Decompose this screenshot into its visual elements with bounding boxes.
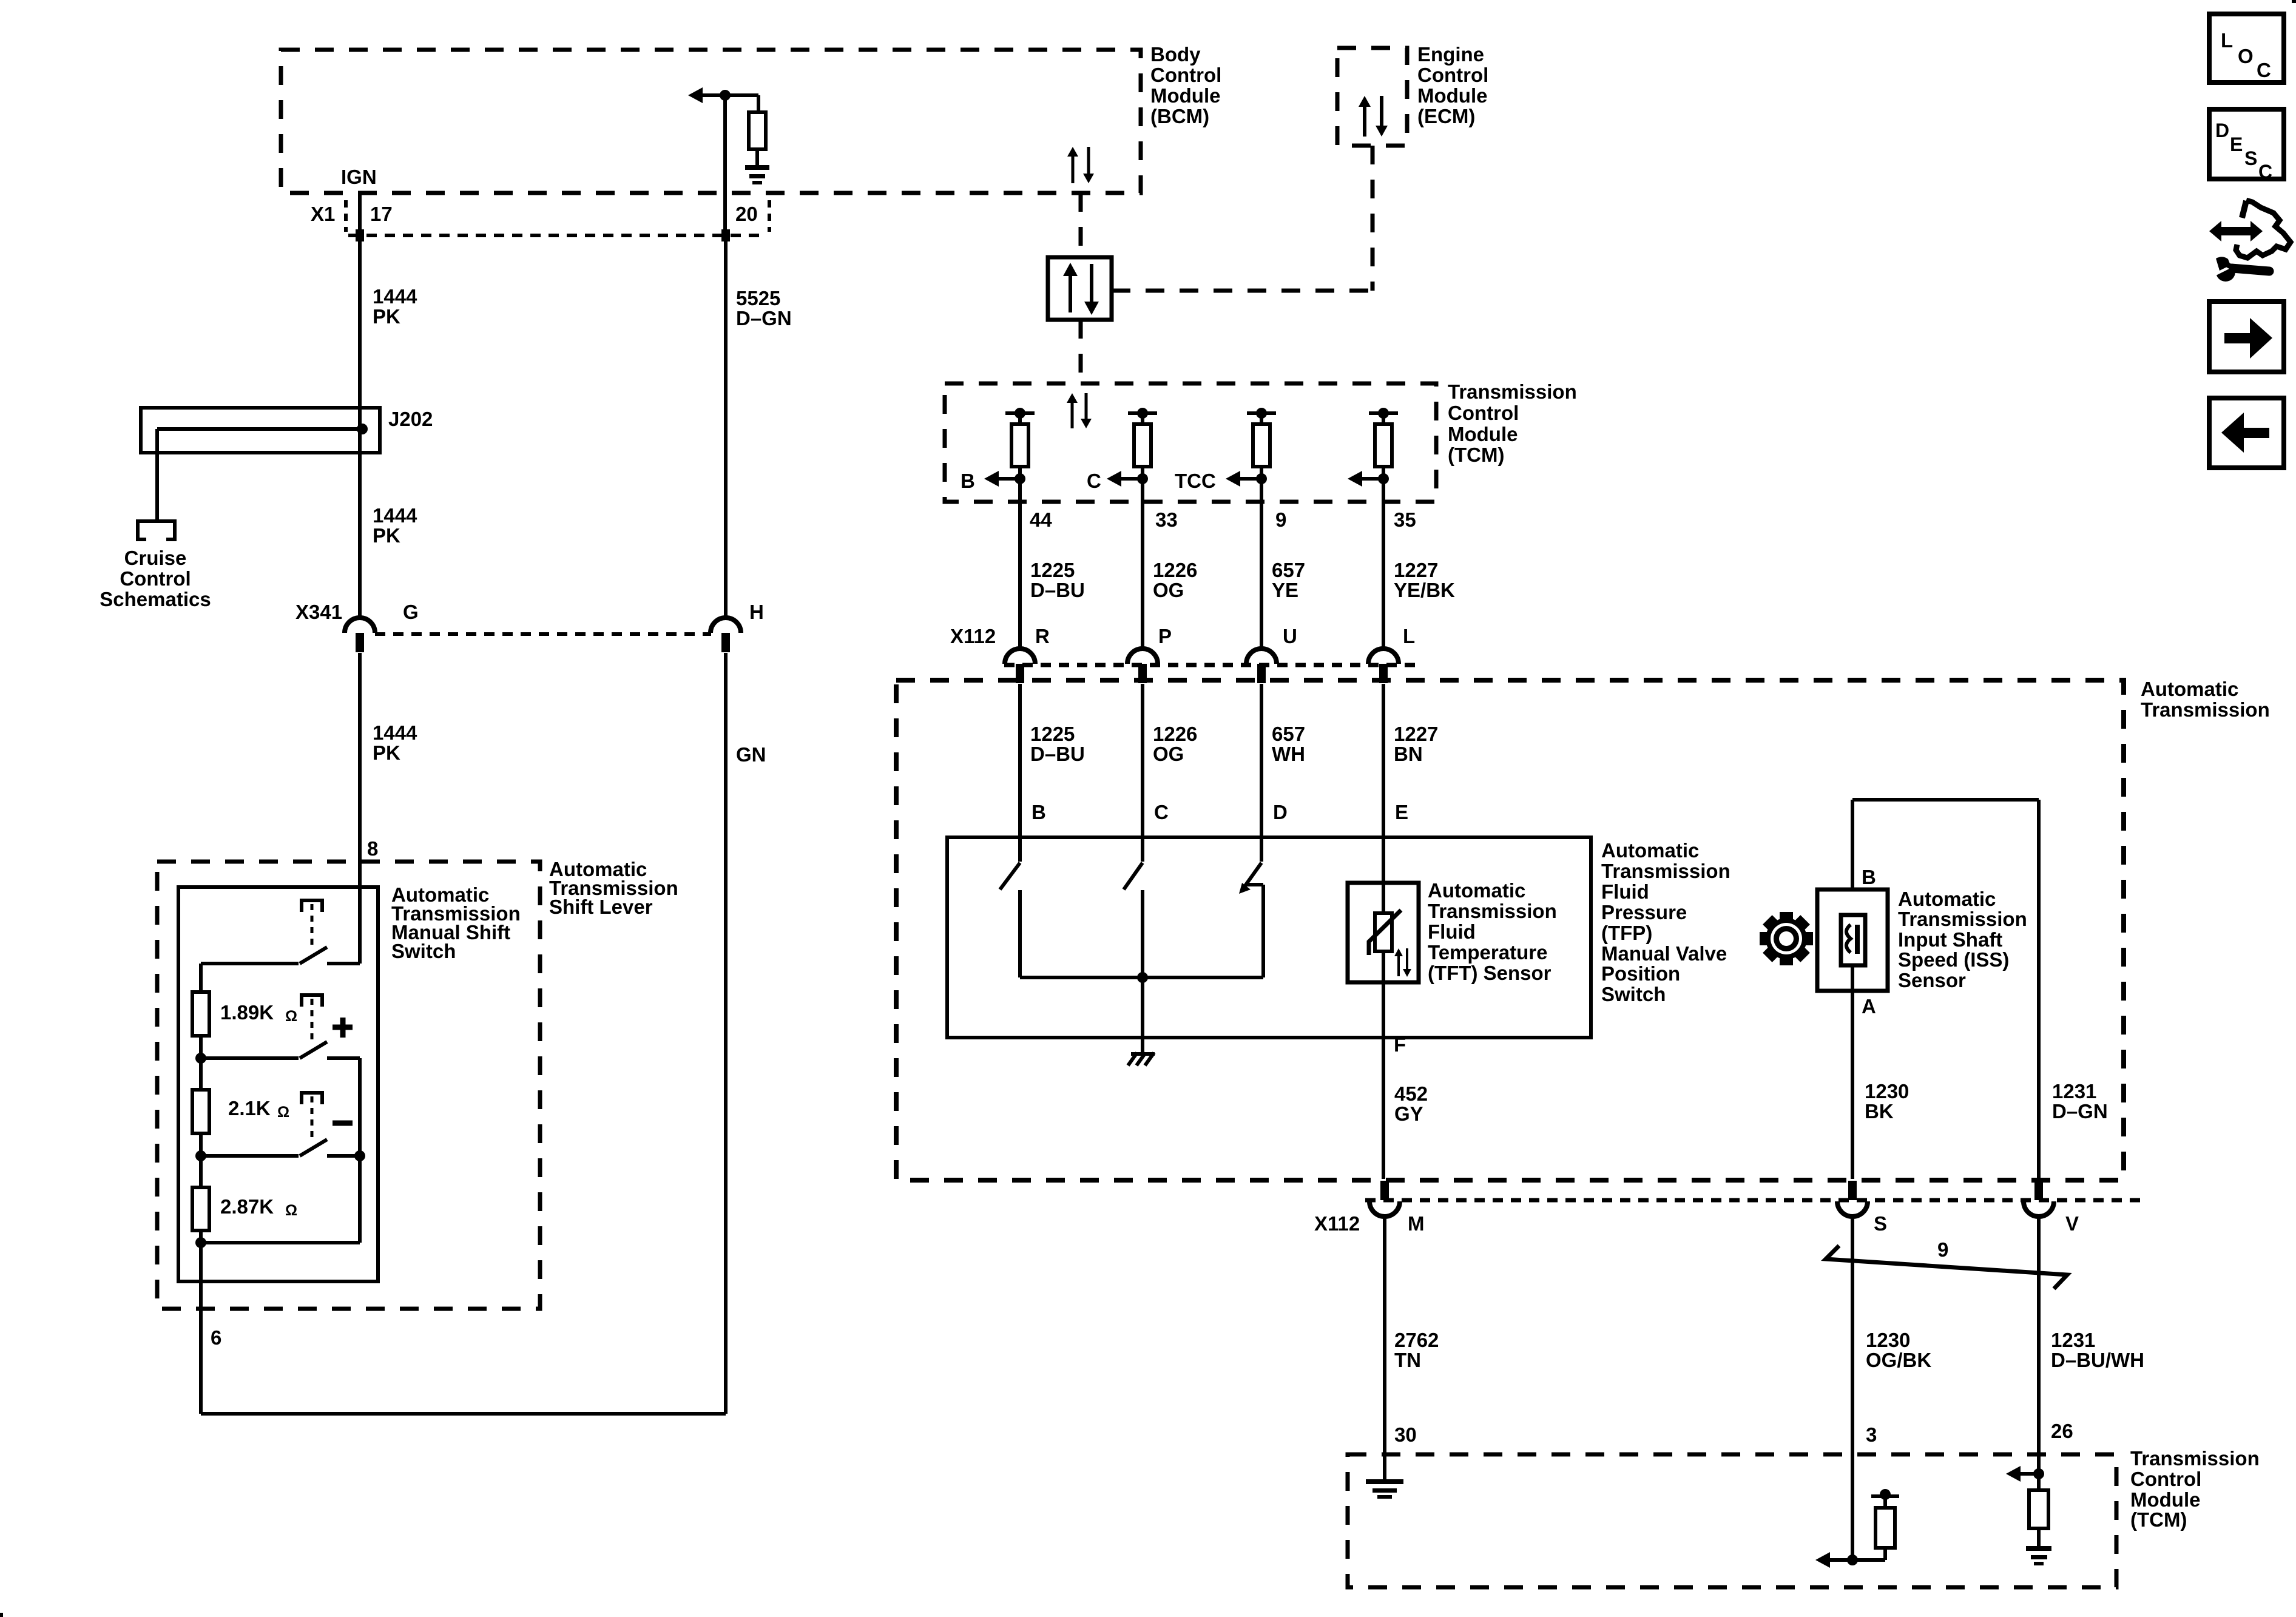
wire 1225 D&#8211;BU from X112 into transmission bbox=[1018, 684, 1022, 862]
wire label 5525 D-GN bbox=[736, 287, 792, 329]
svg-text:B: B bbox=[961, 470, 975, 492]
svg-text:Control: Control bbox=[1150, 64, 1221, 86]
wire label 1231 D-GN bbox=[2052, 1080, 2108, 1122]
junction dot at S3 right contact bbox=[354, 1150, 365, 1161]
pin 44 label bbox=[1030, 508, 1052, 531]
label J202 bbox=[388, 408, 433, 430]
label 9 (twisted pair) bbox=[1937, 1238, 1948, 1261]
svg-text:(TCM): (TCM) bbox=[2130, 1508, 2187, 1531]
wire 657 WH from X112 into transmission bbox=[1260, 684, 1263, 862]
dashed serial data wire junction to TCM bbox=[1079, 320, 1083, 383]
label B bbox=[961, 470, 975, 492]
label: Automatic Transmission Input Shaft Speed (ISS) Sensor bbox=[1898, 888, 2027, 991]
svg-text:BK: BK bbox=[1865, 1100, 1894, 1122]
chassis ground (TFP switch) bbox=[1128, 1053, 1155, 1065]
wire label 1444 PK (middle) bbox=[373, 504, 417, 547]
svg-text:X1: X1 bbox=[311, 203, 335, 225]
svg-text:20: 20 bbox=[735, 203, 758, 225]
svg-text:IGN: IGN bbox=[341, 166, 377, 188]
svg-text:C: C bbox=[2257, 59, 2271, 81]
BCM internal: arrow to further circuits, junction, pull-up resistor to ground bbox=[688, 87, 766, 165]
wire: 1231 D-BU/WH from X112 V to TCM bbox=[2037, 1215, 2041, 1474]
svg-text:D–BU/WH: D–BU/WH bbox=[2051, 1349, 2144, 1371]
svg-text:Control: Control bbox=[1417, 64, 1488, 86]
svg-text:Temperature: Temperature bbox=[1428, 941, 1547, 964]
svg-text:B: B bbox=[1032, 801, 1046, 823]
svg-text:C: C bbox=[1087, 470, 1101, 492]
thermistor (TFT) element bbox=[1369, 910, 1401, 955]
wire label 2762 TN bbox=[1394, 1329, 1439, 1371]
label - (minus) bbox=[333, 1121, 353, 1126]
component box: TFT sensor bbox=[1348, 883, 1419, 982]
wire label 1231 D-BU/WH bbox=[2051, 1329, 2144, 1371]
svg-text:YE: YE bbox=[1272, 579, 1298, 601]
wire label 1226 OG bbox=[1153, 559, 1197, 601]
TFT internal up/down arrows bbox=[1394, 948, 1411, 977]
svg-text:1226: 1226 bbox=[1153, 559, 1197, 581]
label: Body Control Module (BCM) bbox=[1150, 43, 1221, 127]
ground (TCM pin 26 resistor) bbox=[2026, 1546, 2051, 1565]
svg-text:YE/BK: YE/BK bbox=[1394, 579, 1455, 601]
svg-text:Transmission: Transmission bbox=[1448, 380, 1577, 403]
ground (BCM internal resistor) bbox=[745, 165, 769, 184]
wire 1227 BN from X112 into transmission bbox=[1382, 684, 1385, 913]
connector X1 row (dotted line with dividers) bbox=[346, 200, 769, 235]
svg-text:D–BU: D–BU bbox=[1030, 743, 1085, 765]
label P bbox=[1158, 625, 1172, 647]
svg-text:Sensor: Sensor bbox=[1898, 969, 1966, 991]
svg-text:B: B bbox=[1862, 866, 1876, 888]
wire label 657 YE bbox=[1272, 559, 1305, 601]
label: Engine Control Module (ECM) bbox=[1417, 43, 1488, 127]
pin A label bbox=[1862, 995, 1876, 1018]
svg-text:452: 452 bbox=[1394, 1082, 1428, 1105]
svg-text:Pressure: Pressure bbox=[1601, 901, 1687, 923]
wire: 1230 OG/BK from X112 S to TCM bbox=[1851, 1215, 1854, 1560]
wire 1225 D&#8211;BU from TCM to X112 bbox=[1018, 502, 1022, 650]
wire: bottom bus of shift switch bbox=[201, 1241, 360, 1244]
svg-text:GY: GY bbox=[1394, 1102, 1423, 1125]
svg-text:33: 33 bbox=[1155, 508, 1178, 531]
pin 9 label bbox=[1275, 508, 1286, 531]
svg-text:X112: X112 bbox=[950, 625, 996, 647]
svg-text:1444: 1444 bbox=[373, 285, 417, 308]
switch S1 (tap-up/tap-down common) with momentary actuator bbox=[201, 899, 360, 964]
splice J202 box bbox=[141, 408, 380, 453]
label 2.1K ohm bbox=[228, 1097, 289, 1121]
label X112 (upper) bbox=[950, 625, 996, 647]
svg-text:C: C bbox=[1154, 801, 1169, 823]
resistor 1.89K ohm bbox=[192, 964, 209, 1036]
svg-text:Cruise: Cruise bbox=[124, 547, 187, 569]
wire: shift switch common down to pin 6 bbox=[199, 1230, 203, 1414]
svg-text:Fluid: Fluid bbox=[1428, 920, 1476, 943]
page mark top-right bbox=[2292, 0, 2296, 3]
wire: 2762 TN from X112 M to TCM ground bbox=[1383, 1215, 1386, 1479]
ECM internal up/down arrows bbox=[1359, 96, 1388, 137]
svg-text:26: 26 bbox=[2051, 1420, 2073, 1442]
label C bbox=[1087, 470, 1101, 492]
label X341 bbox=[295, 601, 342, 623]
label 2.87K ohm bbox=[220, 1195, 297, 1219]
svg-text:657: 657 bbox=[1272, 559, 1305, 581]
pin B label bbox=[1032, 801, 1046, 823]
connector H (in-line) bbox=[711, 618, 741, 652]
svg-text:Position: Position bbox=[1601, 962, 1680, 985]
wire: right-side bus of shift switch bbox=[358, 1058, 362, 1243]
svg-text:1231: 1231 bbox=[2052, 1080, 2096, 1102]
svg-text:Ω: Ω bbox=[285, 1008, 297, 1025]
pin 17 label bbox=[370, 203, 393, 225]
svg-text:D: D bbox=[1273, 801, 1288, 823]
label X112 (lower) bbox=[1314, 1212, 1360, 1235]
svg-text:OG/BK: OG/BK bbox=[1866, 1349, 1931, 1371]
connector X112 pin U bbox=[1246, 649, 1277, 683]
module box: Engine Control Module (ECM), dashed bbox=[1337, 48, 1407, 146]
svg-text:D–GN: D–GN bbox=[736, 307, 792, 329]
svg-text:(TFP): (TFP) bbox=[1601, 922, 1652, 944]
svg-text:Control: Control bbox=[1448, 402, 1519, 424]
junction dot (R2/R3) bbox=[195, 1150, 206, 1161]
wire: branch down to cruise control connector bbox=[155, 429, 159, 521]
connector X112 pin V bbox=[2024, 1181, 2054, 1217]
TFP switch contact B (open) bbox=[1000, 863, 1020, 977]
TFP switch common bus bbox=[1020, 976, 1263, 979]
dashed serial data wire ECM drop bbox=[1371, 146, 1375, 291]
svg-text:Automatic: Automatic bbox=[1601, 839, 1699, 862]
svg-text:Module: Module bbox=[2130, 1488, 2200, 1511]
pin 20 terminal tick bbox=[721, 229, 730, 241]
svg-text:1225: 1225 bbox=[1030, 723, 1075, 745]
wire: 1444 PK from J202 to connector X341 G bbox=[358, 429, 362, 620]
pin label IGN on BCM bbox=[341, 166, 377, 188]
label V bbox=[2065, 1212, 2079, 1235]
pin 30 label bbox=[1394, 1423, 1417, 1446]
label R bbox=[1035, 625, 1050, 647]
svg-text:(BCM): (BCM) bbox=[1150, 105, 1209, 127]
label X1 bbox=[311, 203, 335, 225]
pin 26 label bbox=[2051, 1420, 2073, 1442]
label + (plus) bbox=[333, 1018, 353, 1038]
svg-text:Ω: Ω bbox=[277, 1104, 289, 1121]
svg-text:OG: OG bbox=[1153, 743, 1184, 765]
svg-text:Shift Lever: Shift Lever bbox=[549, 896, 653, 918]
connector X112 pin L bbox=[1368, 649, 1399, 683]
svg-text:PK: PK bbox=[373, 524, 400, 547]
svg-text:6: 6 bbox=[211, 1326, 221, 1349]
icon: hand with double arrow and wrench bbox=[2205, 200, 2291, 282]
wire label GN bbox=[736, 743, 766, 766]
connector X341 row dotted line bbox=[375, 632, 711, 636]
svg-text:17: 17 bbox=[370, 203, 393, 225]
TCM driver 4: terminal dot, resistor, output arrow bbox=[1348, 408, 1398, 502]
svg-text:F: F bbox=[1394, 1033, 1406, 1056]
switch S2 (+, upshift) with momentary actuator bbox=[201, 993, 360, 1058]
connector X112 row 1 dotted line bbox=[1004, 663, 1420, 667]
connector G (in-line) bbox=[345, 618, 375, 652]
svg-text:OG: OG bbox=[1153, 579, 1184, 601]
label L bbox=[1403, 625, 1415, 647]
TCM internal up/down arrows bbox=[1067, 393, 1092, 428]
label: Cruise Control Schematics bbox=[100, 547, 211, 610]
svg-text:1444: 1444 bbox=[373, 504, 417, 527]
svg-text:C: C bbox=[2258, 161, 2272, 183]
module box: Transmission Control Module (TCM), dashed bbox=[945, 383, 1436, 502]
svg-text:J202: J202 bbox=[388, 408, 433, 430]
svg-text:X112: X112 bbox=[1314, 1212, 1360, 1235]
svg-text:9: 9 bbox=[1937, 1238, 1948, 1261]
svg-text:R: R bbox=[1035, 625, 1050, 647]
svg-text:TN: TN bbox=[1394, 1349, 1421, 1371]
svg-text:M: M bbox=[1408, 1212, 1425, 1235]
wire 657 YE from TCM to X112 bbox=[1260, 502, 1263, 650]
TCM driver 2: terminal dot, resistor, output arrow bbox=[1107, 408, 1157, 502]
label: Automatic Transmission Manual Shift Switch bbox=[391, 883, 521, 962]
svg-text:L: L bbox=[1403, 625, 1415, 647]
module box: Transmission Control Module (TCM) lower, dashed bbox=[1348, 1454, 2116, 1587]
svg-text:(TFT) Sensor: (TFT) Sensor bbox=[1428, 962, 1551, 984]
svg-text:1444: 1444 bbox=[373, 721, 417, 744]
svg-text:Transmission: Transmission bbox=[1601, 860, 1730, 882]
svg-text:35: 35 bbox=[1394, 508, 1416, 531]
wire label 452 GY bbox=[1394, 1082, 1428, 1125]
svg-text:Transmission: Transmission bbox=[2130, 1447, 2260, 1470]
wire: 1444 PK from X341 G down to shift switch pin 8 bbox=[358, 653, 362, 964]
svg-text:Module: Module bbox=[1150, 84, 1220, 107]
component box: ISS sensor bbox=[1817, 890, 1888, 991]
svg-text:WH: WH bbox=[1272, 743, 1305, 765]
svg-text:5525: 5525 bbox=[736, 287, 780, 309]
svg-text:P: P bbox=[1158, 625, 1172, 647]
svg-text:(ECM): (ECM) bbox=[1417, 105, 1475, 127]
svg-text:A: A bbox=[1862, 995, 1876, 1018]
svg-text:BN: BN bbox=[1394, 743, 1423, 765]
svg-text:9: 9 bbox=[1275, 508, 1286, 531]
dashed serial data wire junction to ECM bbox=[1112, 289, 1373, 293]
svg-text:2762: 2762 bbox=[1394, 1329, 1439, 1351]
wire: ISS B loop up and over to 1231 D-GN bbox=[1852, 800, 2039, 1179]
svg-text:44: 44 bbox=[1030, 508, 1052, 531]
label TCC bbox=[1175, 470, 1216, 492]
pin E label bbox=[1395, 801, 1408, 823]
label: Automatic Transmission Fluid Pressure (TFP) Manual Valve Position Switch bbox=[1601, 839, 1730, 1005]
svg-text:1227: 1227 bbox=[1394, 723, 1438, 745]
wire label 1444 PK (upper) bbox=[373, 285, 417, 328]
wire label 1444 PK (lower) bbox=[373, 721, 417, 764]
svg-text:1227: 1227 bbox=[1394, 559, 1438, 581]
page mark bottom-left bbox=[0, 1613, 3, 1617]
pin 3 label bbox=[1866, 1423, 1877, 1446]
svg-text:Schematics: Schematics bbox=[100, 588, 211, 610]
svg-text:Manual Valve: Manual Valve bbox=[1601, 942, 1727, 965]
svg-text:Control: Control bbox=[2130, 1468, 2201, 1490]
label S bbox=[1874, 1212, 1887, 1235]
connector X112 row 2 dotted line bbox=[1365, 1198, 2142, 1203]
icon box LOC bbox=[2209, 14, 2284, 83]
svg-text:Automatic: Automatic bbox=[1428, 879, 1525, 902]
junction dot at J202 bbox=[357, 424, 368, 434]
label: Automatic Transmission bbox=[2141, 678, 2270, 721]
label: Transmission Control Module (TCM) lower bbox=[2130, 1447, 2260, 1531]
TCM pin 3 internal: arrow, junction and bias resistor bbox=[1815, 1489, 1899, 1568]
dashed serial data wire BCM to data-link junction bbox=[1079, 193, 1083, 257]
svg-text:TCC: TCC bbox=[1175, 470, 1216, 492]
pin 35 label bbox=[1394, 508, 1416, 531]
component box: TFP manual valve position switch bbox=[947, 837, 1591, 1038]
wire label 1225 D&#8211;BU (lower) bbox=[1030, 723, 1085, 765]
label: Automatic Transmission Shift Lever bbox=[549, 858, 678, 918]
svg-text:S: S bbox=[1874, 1212, 1887, 1235]
TCM driver 1: terminal dot, resistor, output arrow bbox=[984, 408, 1035, 502]
wire label 1230 OG/BK bbox=[1866, 1329, 1931, 1371]
svg-text:1.89K: 1.89K bbox=[220, 1001, 274, 1024]
wire: 5525 D-GN from BCM pin 20 down to connector X341 H bbox=[725, 95, 726, 620]
pin 6 label bbox=[211, 1326, 221, 1349]
svg-text:Switch: Switch bbox=[391, 940, 456, 962]
svg-text:30: 30 bbox=[1394, 1423, 1417, 1446]
svg-text:O: O bbox=[2238, 45, 2254, 67]
svg-text:D–GN: D–GN bbox=[2052, 1100, 2108, 1122]
switch S3 (-, downshift) with momentary actuator bbox=[201, 1091, 360, 1156]
svg-text:657: 657 bbox=[1272, 723, 1305, 745]
svg-text:Transmission: Transmission bbox=[1898, 908, 2027, 930]
resistor 2.87K ohm bbox=[192, 1133, 209, 1230]
wire label 1226 OG (lower) bbox=[1153, 723, 1197, 765]
pin 20 label bbox=[735, 203, 758, 225]
svg-text:D: D bbox=[2215, 120, 2229, 141]
svg-text:1225: 1225 bbox=[1030, 559, 1075, 581]
pin 8 label bbox=[367, 837, 378, 860]
svg-text:Module: Module bbox=[1448, 423, 1518, 445]
svg-text:1231: 1231 bbox=[2051, 1329, 2095, 1351]
module box: Automatic Transmission Shift Lever, dashed bbox=[157, 862, 540, 1309]
svg-text:Automatic: Automatic bbox=[2141, 678, 2238, 700]
svg-text:Fluid: Fluid bbox=[1601, 880, 1649, 903]
svg-text:L: L bbox=[2221, 29, 2233, 52]
svg-text:Input Shaft: Input Shaft bbox=[1898, 928, 2002, 951]
pin 33 label bbox=[1155, 508, 1178, 531]
wire label 1227 YE/BK bbox=[1394, 559, 1455, 601]
junction dot bottom bus bbox=[195, 1237, 206, 1248]
svg-text:PK: PK bbox=[373, 741, 400, 764]
wire: 452 GY from TFT sensor through pin F bbox=[1382, 951, 1385, 1179]
svg-text:U: U bbox=[1283, 625, 1297, 647]
wire: ISS A down as 1230 BK bbox=[1851, 965, 1854, 1179]
wire: TFP common to ground bbox=[1141, 977, 1144, 1054]
TCM driver 3: terminal dot, resistor, output arrow bbox=[1226, 408, 1276, 502]
svg-text:Engine: Engine bbox=[1417, 43, 1484, 66]
BCM internal serial-data up/down arrows bbox=[1067, 147, 1094, 183]
wire label 657 WH (lower) bbox=[1272, 723, 1305, 765]
wire: return run from pin 6 to GN wire bbox=[201, 1412, 726, 1416]
connector X112 pin R bbox=[1005, 649, 1035, 683]
svg-text:GN: GN bbox=[736, 743, 766, 766]
label: Automatic Transmission Fluid Temperature (TFT) Sensor bbox=[1428, 879, 1557, 984]
connector X112 pin S bbox=[1837, 1181, 1868, 1217]
label U bbox=[1283, 625, 1297, 647]
svg-text:G: G bbox=[403, 601, 419, 623]
label H bbox=[749, 601, 764, 623]
wire 1226 OG from X112 into transmission bbox=[1141, 684, 1144, 862]
wire 1227 YE/BK from TCM to X112 bbox=[1382, 502, 1385, 650]
wire: splice branch inside J202 bbox=[157, 427, 362, 431]
pin B label bbox=[1862, 866, 1876, 888]
wire: GN below H to bottom run bbox=[724, 653, 728, 1414]
svg-text:1230: 1230 bbox=[1866, 1329, 1910, 1351]
connector X112 pin P bbox=[1127, 649, 1158, 683]
wire: 1444 PK from BCM IGN pin 17 down to splice J202 bbox=[358, 194, 362, 429]
svg-text:X341: X341 bbox=[295, 601, 342, 623]
label M bbox=[1408, 1212, 1425, 1235]
ISS sensor element (pickup coil) bbox=[1841, 915, 1865, 965]
icon box right arrow bbox=[2209, 302, 2284, 372]
wire label 1230 BK bbox=[1865, 1080, 1909, 1122]
svg-text:S: S bbox=[2244, 147, 2257, 169]
wire label 1225 D&#8211;BU bbox=[1030, 559, 1085, 601]
icon box left arrow bbox=[2209, 398, 2284, 468]
wire label 1227 BN (lower) bbox=[1394, 723, 1438, 765]
pin 17 terminal tick bbox=[356, 229, 364, 241]
svg-text:E: E bbox=[1395, 801, 1408, 823]
svg-text:1226: 1226 bbox=[1153, 723, 1197, 745]
TFP switch contact D (closed, arrow blade) bbox=[1239, 863, 1263, 977]
svg-text:H: H bbox=[749, 601, 764, 623]
svg-text:2.1K: 2.1K bbox=[228, 1097, 271, 1119]
gear icon (transmission) bbox=[1760, 912, 1813, 965]
svg-text:Transmission: Transmission bbox=[1428, 900, 1557, 922]
junction dot TFP common bbox=[1137, 972, 1148, 983]
svg-text:Speed (ISS): Speed (ISS) bbox=[1898, 948, 2009, 971]
svg-text:Control: Control bbox=[120, 567, 191, 590]
svg-text:Body: Body bbox=[1150, 43, 1201, 66]
pin C label bbox=[1154, 801, 1169, 823]
ground (TCM pin 30) bbox=[1366, 1479, 1403, 1499]
svg-text:3: 3 bbox=[1866, 1423, 1877, 1446]
off-page connector bracket to cruise control bbox=[136, 519, 177, 541]
svg-text:Switch: Switch bbox=[1601, 983, 1666, 1005]
module box: Body Control Module (BCM), dashed bbox=[281, 50, 1141, 193]
svg-text:8: 8 bbox=[367, 837, 378, 860]
svg-text:(TCM): (TCM) bbox=[1448, 444, 1504, 466]
svg-text:2.87K: 2.87K bbox=[220, 1195, 274, 1218]
svg-text:E: E bbox=[2230, 133, 2243, 155]
connector X112 pin M bbox=[1369, 1181, 1400, 1217]
resistor 2.1K ohm bbox=[192, 1036, 209, 1133]
svg-text:V: V bbox=[2065, 1212, 2079, 1235]
pin F label bbox=[1394, 1033, 1406, 1056]
twisted-pair indicator across S and V wires bbox=[1826, 1246, 2067, 1289]
TFP switch contact C (open) bbox=[1124, 863, 1143, 977]
svg-text:Ω: Ω bbox=[285, 1202, 297, 1219]
component box: Automatic Transmission Manual Shift Switch bbox=[178, 887, 378, 1281]
label G bbox=[403, 601, 419, 623]
svg-text:Module: Module bbox=[1417, 84, 1487, 107]
label 1.89K ohm bbox=[220, 1001, 297, 1025]
icon box DESC bbox=[2209, 109, 2284, 183]
label: Transmission Control Module (TCM) bbox=[1448, 380, 1577, 466]
wire 1226 OG from TCM to X112 bbox=[1141, 502, 1144, 650]
svg-text:Transmission: Transmission bbox=[2141, 698, 2270, 721]
TCM pin 26 internal: arrow, junction, resistor and ground bbox=[2006, 1466, 2048, 1546]
pin D label bbox=[1273, 801, 1288, 823]
component box: Automatic Transmission, dashed bbox=[896, 680, 2124, 1180]
svg-text:PK: PK bbox=[373, 305, 400, 328]
junction dot (R1/R2) bbox=[195, 1053, 206, 1064]
data link connector box with up/down arrows bbox=[1048, 257, 1112, 320]
svg-text:1230: 1230 bbox=[1865, 1080, 1909, 1102]
svg-text:Automatic: Automatic bbox=[1898, 888, 1996, 910]
svg-text:D–BU: D–BU bbox=[1030, 579, 1085, 601]
